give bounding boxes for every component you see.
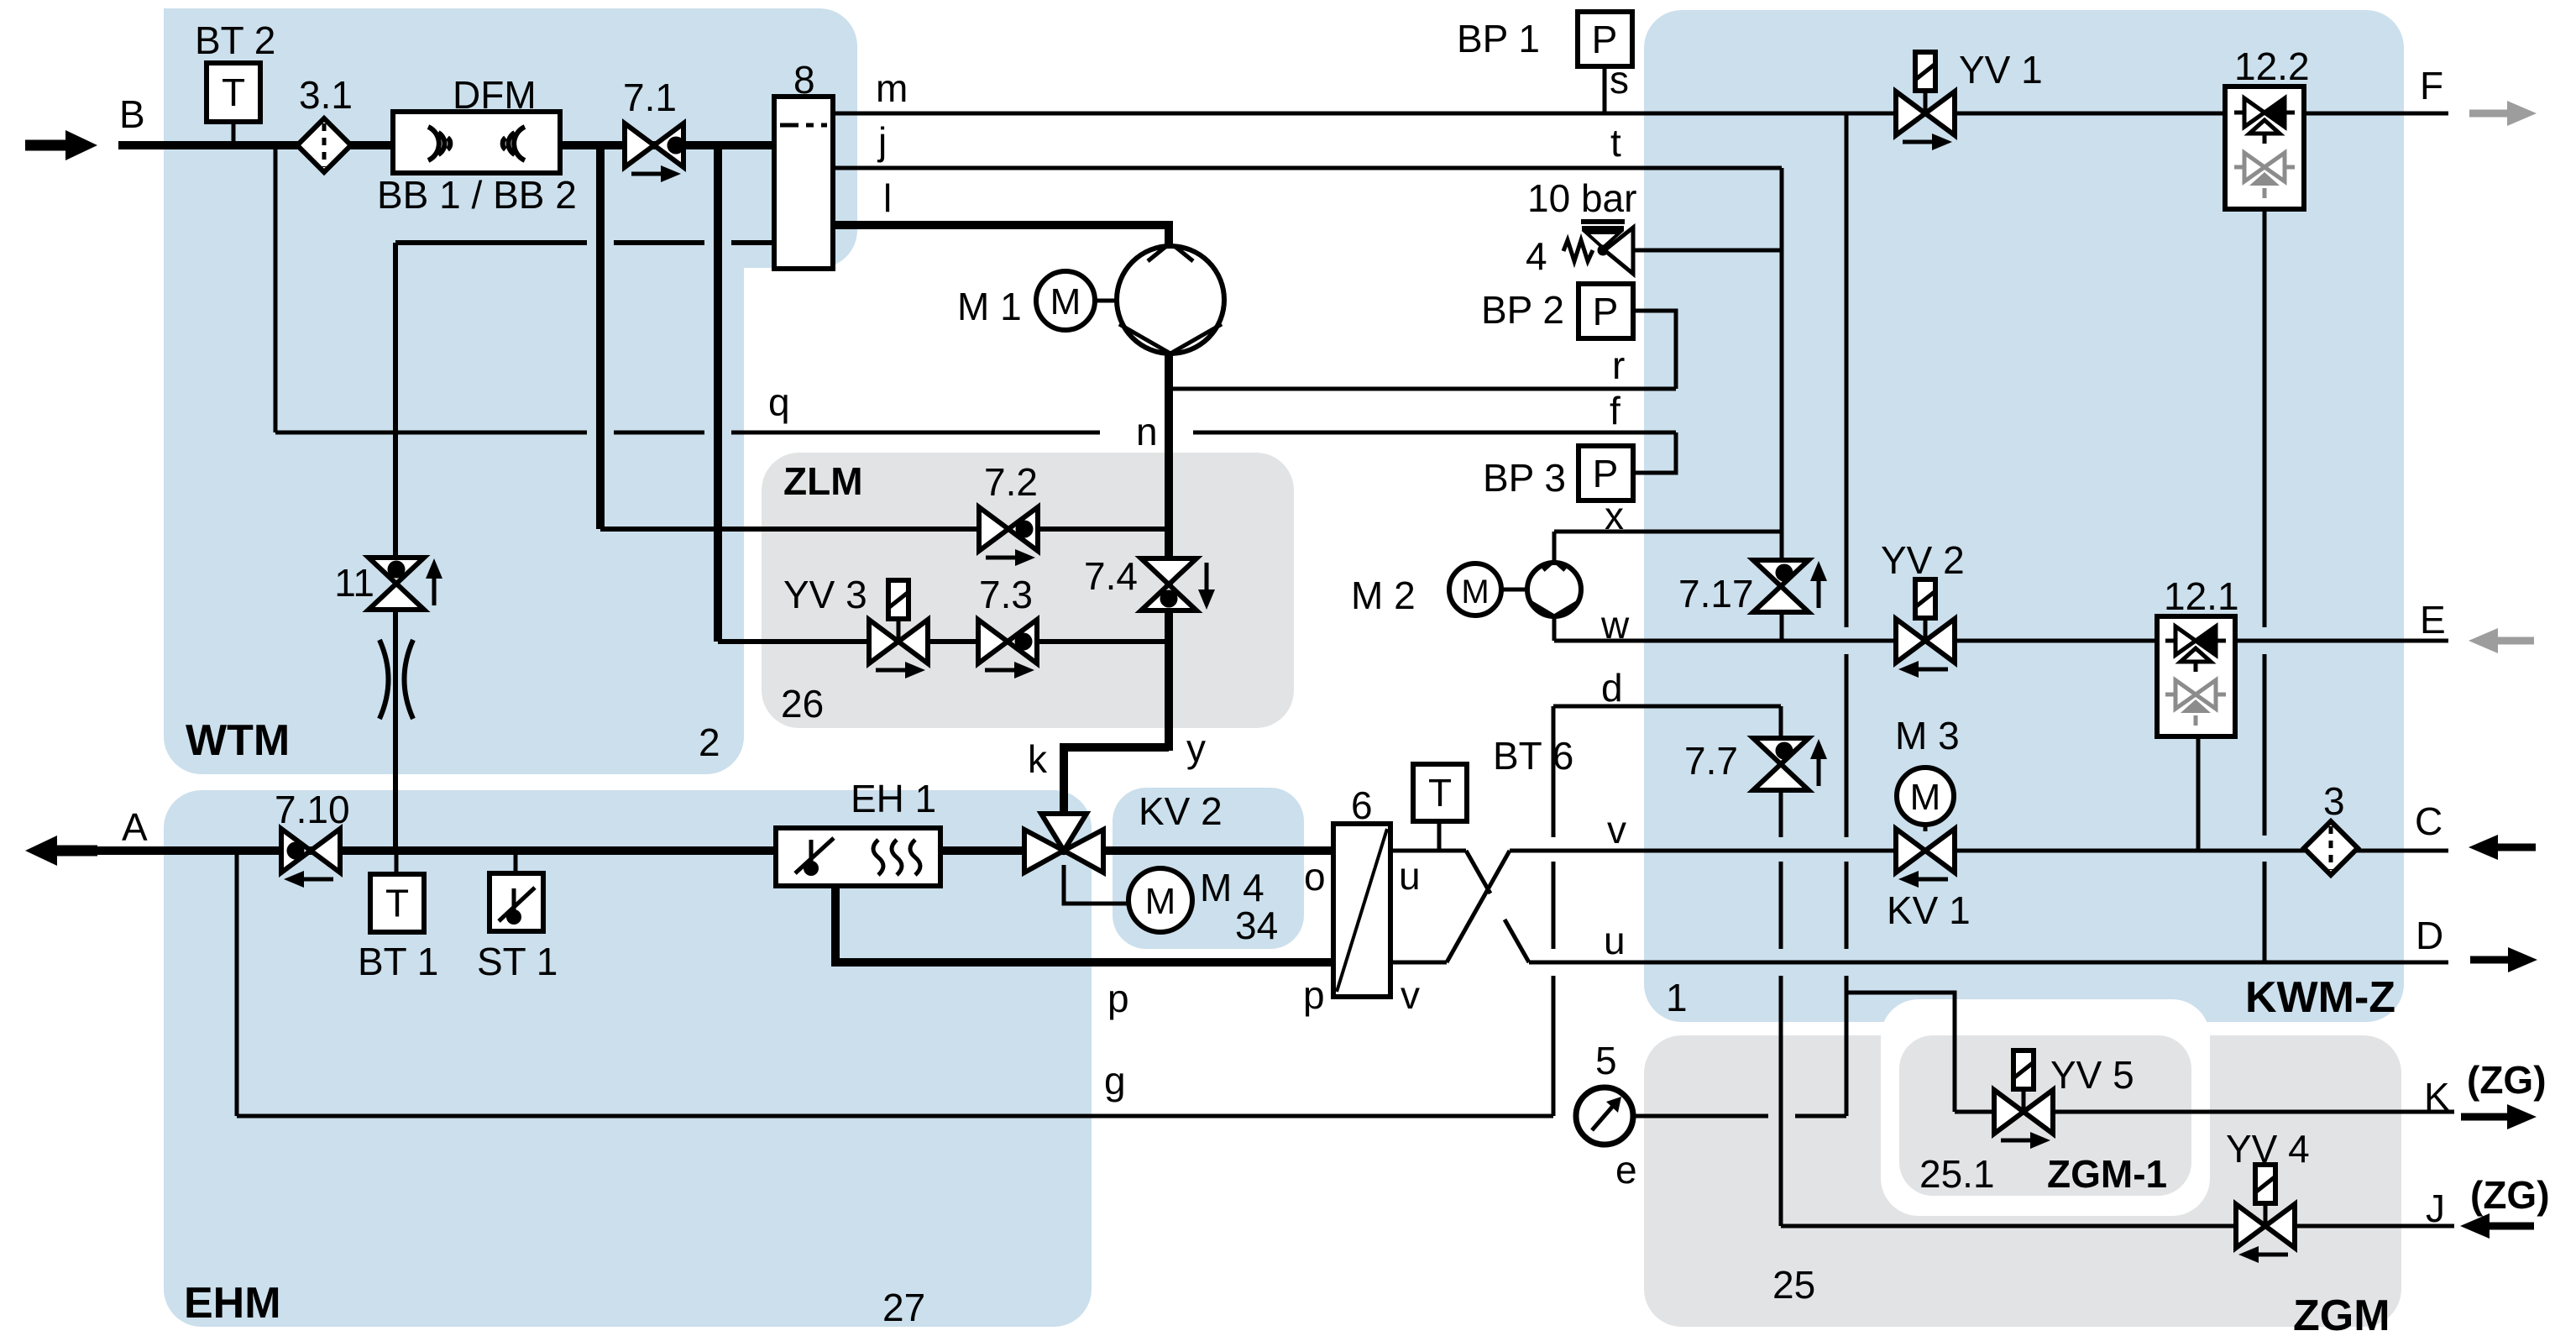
- svg-text:BB 1 / BB 2: BB 1 / BB 2: [377, 173, 577, 217]
- pressure sensor BP3 box: [1579, 446, 1633, 500]
- wire q-f sense line seg4: [1193, 431, 1676, 435]
- svg-text:YV 3: YV 3: [783, 573, 867, 616]
- wire q-f sense line seg1: [275, 431, 587, 435]
- inlet arrow J: [2460, 1213, 2534, 1239]
- outlet arrow A: [25, 836, 97, 866]
- svg-text:(ZG): (ZG): [2467, 1058, 2547, 1102]
- wire 7.17 stem x2122: [1780, 532, 1784, 560]
- svg-text:E: E: [2420, 598, 2446, 642]
- wire 7.7 drop seg2: [1779, 862, 1783, 949]
- svg-text:M 3: M 3: [1895, 714, 1960, 757]
- svg-text:BP 1: BP 1: [1457, 17, 1540, 60]
- svg-text:M 2: M 2: [1351, 574, 1416, 617]
- wire k elbow: [1064, 747, 1169, 851]
- temperature sensor BT6 box: [1413, 764, 1467, 821]
- svg-text:7.1: 7.1: [623, 76, 677, 119]
- svg-text:p: p: [1107, 977, 1129, 1020]
- wire crossover u diagonal seg1: [1466, 851, 1490, 893]
- wire KV2 to M4 link: [1064, 865, 1128, 904]
- wire t elbow down x2122: [1780, 168, 1784, 532]
- svg-text:(ZG): (ZG): [2470, 1173, 2550, 1217]
- svg-text:P: P: [1593, 290, 1619, 333]
- wire 7.17 to w line: [1780, 612, 1784, 641]
- svg-text:v: v: [1401, 973, 1420, 1017]
- svg-text:v: v: [1607, 808, 1626, 851]
- wire j-t line: [833, 166, 1782, 170]
- svg-text:34: 34: [1235, 904, 1278, 947]
- wire branch vertical x855: [714, 145, 722, 642]
- wire HX v lower port: [1390, 961, 1447, 965]
- solenoid valve YV2: [1896, 579, 1955, 678]
- valve 11: [369, 558, 442, 610]
- KV2 sub-panel: [1113, 788, 1304, 949]
- wire m-s line: [833, 112, 2448, 116]
- svg-text:g: g: [1104, 1059, 1126, 1103]
- wire s drop x2199 seg2: [1845, 654, 1849, 837]
- valve 7.2: [979, 507, 1038, 566]
- ZLM module panel: [762, 453, 1294, 728]
- WTM module panel (wide top part): [164, 8, 857, 268]
- wire u-D line: [1529, 961, 2448, 965]
- svg-text:BT 2: BT 2: [195, 18, 275, 62]
- inlet arrow C: [2469, 835, 2536, 860]
- svg-text:BT 1: BT 1: [358, 940, 438, 983]
- wire K branch: [1846, 993, 1955, 1112]
- valve 7.7: [1753, 738, 1827, 790]
- temperature sensor BT2 box: [207, 63, 260, 122]
- pressure sensor BP1 box: [1578, 12, 1632, 66]
- wire K line: [1955, 1110, 2454, 1114]
- valve 7.10: [281, 829, 340, 888]
- svg-text:ST 1: ST 1: [477, 940, 558, 983]
- svg-text:11: 11: [334, 561, 374, 605]
- svg-text:DFM: DFM: [453, 73, 537, 117]
- wire ST1 stem: [514, 851, 518, 873]
- svg-text:d: d: [1601, 666, 1623, 710]
- air separation chamber 8: [774, 97, 833, 269]
- svg-text:7.4: 7.4: [1084, 554, 1138, 598]
- svg-text:BP 2: BP 2: [1481, 288, 1564, 332]
- wire l line thick: [833, 225, 1169, 247]
- svg-text:t: t: [1610, 121, 1621, 165]
- valve 7.17: [1753, 560, 1827, 612]
- svg-text:D: D: [2416, 914, 2443, 957]
- wire vessel8 lower port seg3: [731, 240, 774, 245]
- wire relief valve 4 line: [1633, 249, 1782, 253]
- wire s drop x2199 seg3: [1845, 862, 1849, 949]
- svg-text:l: l: [883, 176, 892, 220]
- svg-text:q: q: [768, 380, 790, 424]
- white gutter around ZGM-1: [1881, 999, 2210, 1216]
- svg-text:M: M: [1145, 881, 1176, 922]
- svg-text:4: 4: [1526, 234, 1547, 278]
- svg-text:F: F: [2420, 64, 2443, 107]
- check valve 12.1 upper: [2165, 626, 2226, 672]
- filter 3.1 diamond: [297, 118, 351, 172]
- svg-text:M: M: [1050, 281, 1081, 322]
- solenoid valve YV4: [2236, 1165, 2295, 1263]
- hose break symbol: [380, 640, 413, 719]
- wire 12.2 drop seg1: [2263, 209, 2267, 627]
- svg-text:5: 5: [1595, 1039, 1617, 1082]
- wire valve11 drop upper: [393, 243, 398, 558]
- svg-text:M 1: M 1: [957, 285, 1022, 328]
- svg-text:3: 3: [2323, 779, 2345, 823]
- svg-text:26: 26: [781, 682, 824, 726]
- svg-text:A: A: [122, 805, 148, 849]
- svg-text:YV 1: YV 1: [1959, 48, 2043, 92]
- valve 7.3: [978, 620, 1037, 678]
- wire d vertical seg2: [1552, 862, 1556, 949]
- wire M2 pump bottom leg: [1552, 616, 1557, 641]
- solenoid valve YV3: [869, 580, 928, 678]
- svg-text:T: T: [1428, 771, 1452, 815]
- pump M1: [1117, 246, 1224, 354]
- svg-text:2: 2: [699, 720, 720, 764]
- wire ZLM YV3 line: [718, 639, 1169, 644]
- 3-way motor valve KV2: [1024, 814, 1103, 872]
- KWM-Z module panel: [1644, 10, 2404, 1022]
- svg-text:ZLM: ZLM: [783, 459, 863, 503]
- svg-text:s: s: [1610, 58, 1629, 102]
- ZGM module panel: [1644, 1035, 2401, 1327]
- wire BP1 stem: [1603, 66, 1607, 113]
- svg-text:P: P: [1592, 18, 1618, 61]
- wire crossover v diagonal: [1447, 851, 1510, 962]
- svg-text:f: f: [1610, 389, 1620, 432]
- svg-text:12.1: 12.1: [2164, 574, 2239, 618]
- svg-text:KWM-Z: KWM-Z: [2245, 973, 2395, 1022]
- svg-text:u: u: [1399, 854, 1421, 898]
- heat exchanger 6: [1333, 824, 1390, 997]
- svg-text:EHM: EHM: [184, 1279, 281, 1328]
- wire w-E line: [1554, 639, 2157, 643]
- outlet arrow K: [2461, 1104, 2537, 1129]
- wire 7.7 drop seg1: [1779, 790, 1783, 837]
- wire r branch: [1169, 387, 1676, 391]
- wire v-C line: [1510, 849, 2448, 853]
- wire vessel8 lower port seg2: [614, 240, 704, 245]
- wire vessel8 to YV3 branch vertical x715: [596, 145, 605, 529]
- wire B-junction sense drop x328: [274, 145, 278, 432]
- svg-text:27: 27: [882, 1286, 925, 1329]
- EHM module panel: [164, 790, 1092, 1327]
- wire J line: [1781, 1224, 2454, 1229]
- wire 7.7 stem top: [1779, 706, 1783, 738]
- svg-text:p: p: [1303, 973, 1325, 1017]
- wire M2 link: [1501, 588, 1528, 592]
- svg-text:YV 2: YV 2: [1881, 538, 1965, 582]
- motor M1 circle: [1036, 271, 1095, 330]
- check valve 12.2 upper: [2234, 98, 2295, 144]
- svg-text:x: x: [1605, 494, 1624, 537]
- filter 3 diamond: [2304, 821, 2358, 875]
- wire ZLM 7.2 line: [600, 527, 1169, 532]
- svg-text:ZGM: ZGM: [2293, 1291, 2390, 1336]
- svg-text:m: m: [876, 66, 908, 110]
- ZGM-1 sub-panel: [1899, 1035, 2191, 1196]
- svg-text:25: 25: [1772, 1263, 1815, 1307]
- wire 12.2 drop seg3: [2263, 862, 2267, 962]
- wire g drop from A line: [235, 851, 239, 1116]
- svg-text:7.10: 7.10: [275, 788, 350, 831]
- motor valve KV1: [1896, 829, 1955, 888]
- svg-text:BT 6: BT 6: [1493, 734, 1573, 778]
- wire M1 link: [1095, 299, 1119, 303]
- wire 7.7 drop seg3: [1779, 976, 1783, 1226]
- svg-text:7.17: 7.17: [1678, 572, 1754, 616]
- wire E line right of 12.1: [2235, 639, 2448, 643]
- temperature sensor BT1 box: [370, 874, 424, 932]
- svg-text:M: M: [1910, 777, 1941, 818]
- wire d line: [1553, 705, 1781, 709]
- svg-text:M: M: [1461, 574, 1489, 610]
- solenoid valve YV1: [1896, 52, 1955, 150]
- inlet arrow B: [25, 130, 97, 160]
- wire vessel8 lower port seg1: [395, 240, 587, 245]
- svg-text:e: e: [1615, 1148, 1637, 1192]
- svg-text:7.3: 7.3: [979, 573, 1033, 616]
- relief valve 4: [1563, 222, 1633, 274]
- wire 12.1 stem to C: [2196, 736, 2201, 851]
- wire BT6 stem: [1437, 821, 1442, 851]
- svg-text:8: 8: [793, 58, 815, 102]
- svg-text:KV 2: KV 2: [1139, 789, 1223, 833]
- wire s drop x2199 seg1: [1845, 113, 1849, 627]
- svg-text:25.1: 25.1: [1919, 1152, 1995, 1196]
- wire gauge to riser seg1: [1633, 1114, 1768, 1119]
- wire valve11 drop lower: [393, 610, 398, 851]
- safety thermostat ST1 box: [490, 873, 543, 931]
- WTM module panel (tall part): [164, 8, 744, 774]
- svg-text:3.1: 3.1: [299, 73, 353, 117]
- wire EH1 bottom return: [835, 886, 1333, 962]
- check valve 12.2 lower grey: [2234, 153, 2295, 198]
- wire x line: [1554, 530, 1782, 534]
- wire q-f sense line seg2: [614, 431, 704, 435]
- svg-text:T: T: [222, 71, 245, 114]
- svg-text:o: o: [1304, 855, 1326, 899]
- svg-text:7.7: 7.7: [1684, 739, 1738, 783]
- outlet arrow F grey: [2469, 101, 2537, 126]
- wire d vertical seg1: [1552, 706, 1556, 837]
- inlet arrow E grey: [2469, 628, 2534, 653]
- svg-text:B: B: [119, 92, 145, 136]
- svg-text:7.2: 7.2: [984, 460, 1038, 504]
- svg-text:BP 3: BP 3: [1483, 456, 1566, 500]
- valve 7.4: [1141, 558, 1215, 610]
- flow meter DFM box: [393, 112, 560, 173]
- svg-text:J: J: [2426, 1187, 2445, 1230]
- svg-text:10 bar: 10 bar: [1527, 176, 1636, 220]
- valve 7.1: [625, 123, 685, 182]
- check valve 12.1 lower grey: [2165, 680, 2226, 726]
- svg-text:12.2: 12.2: [2234, 45, 2310, 88]
- pressure gauge 5: [1576, 1087, 1633, 1145]
- svg-text:KV 1: KV 1: [1887, 888, 1971, 932]
- svg-text:y: y: [1186, 726, 1206, 770]
- svg-text:u: u: [1604, 919, 1626, 962]
- svg-text:1: 1: [1666, 976, 1688, 1019]
- wire pump M1 outlet n vertical: [1165, 353, 1173, 751]
- svg-text:n: n: [1136, 410, 1158, 453]
- wire r to BP2 riser: [1633, 311, 1676, 389]
- wire main A line: [92, 846, 1333, 855]
- svg-text:EH 1: EH 1: [851, 777, 936, 820]
- wire s drop x2199 seg4: [1845, 976, 1849, 1116]
- wire BT2 stem: [232, 122, 236, 143]
- wire f to BP3 riser: [1633, 432, 1676, 473]
- svg-text:K: K: [2424, 1075, 2450, 1119]
- svg-text:WTM: WTM: [186, 716, 290, 765]
- wire d vertical seg3: [1552, 976, 1556, 1116]
- wire BT1 stem: [395, 851, 399, 874]
- svg-text:w: w: [1600, 603, 1630, 647]
- wire crossover u diagonal seg2: [1505, 919, 1529, 962]
- wire M2 pump top leg: [1552, 532, 1557, 563]
- svg-text:T: T: [385, 882, 409, 925]
- wire g line: [237, 1114, 1553, 1119]
- svg-text:C: C: [2415, 799, 2442, 843]
- wire M3 stem: [1924, 825, 1928, 831]
- svg-text:ZGM-1: ZGM-1: [2047, 1152, 2167, 1196]
- outlet arrow D: [2470, 947, 2537, 972]
- double check valve 12.1 box: [2157, 616, 2235, 736]
- solenoid valve YV5: [1994, 1050, 2053, 1149]
- wire q-f sense line seg3: [731, 431, 1100, 435]
- wire HX u upper port: [1390, 849, 1466, 853]
- heater EH1 box: [776, 828, 940, 886]
- wire gauge to riser seg2: [1795, 1114, 1846, 1119]
- wire 12.2 drop seg2: [2263, 654, 2267, 836]
- svg-text:k: k: [1028, 737, 1048, 781]
- svg-text:YV 4: YV 4: [2226, 1127, 2310, 1171]
- svg-text:YV 5: YV 5: [2050, 1053, 2134, 1097]
- motor M2 circle: [1449, 563, 1501, 616]
- svg-text:6: 6: [1351, 783, 1373, 827]
- double check valve 12.2 box: [2225, 86, 2304, 209]
- svg-text:r: r: [1612, 343, 1625, 387]
- motor M3 circle: [1897, 768, 1954, 825]
- svg-text:j: j: [877, 119, 887, 163]
- pressure sensor BP2 box: [1579, 284, 1633, 338]
- wire main B line: [118, 141, 774, 149]
- svg-text:P: P: [1593, 452, 1619, 495]
- pump M2: [1527, 563, 1581, 616]
- motor M4 circle: [1128, 868, 1192, 932]
